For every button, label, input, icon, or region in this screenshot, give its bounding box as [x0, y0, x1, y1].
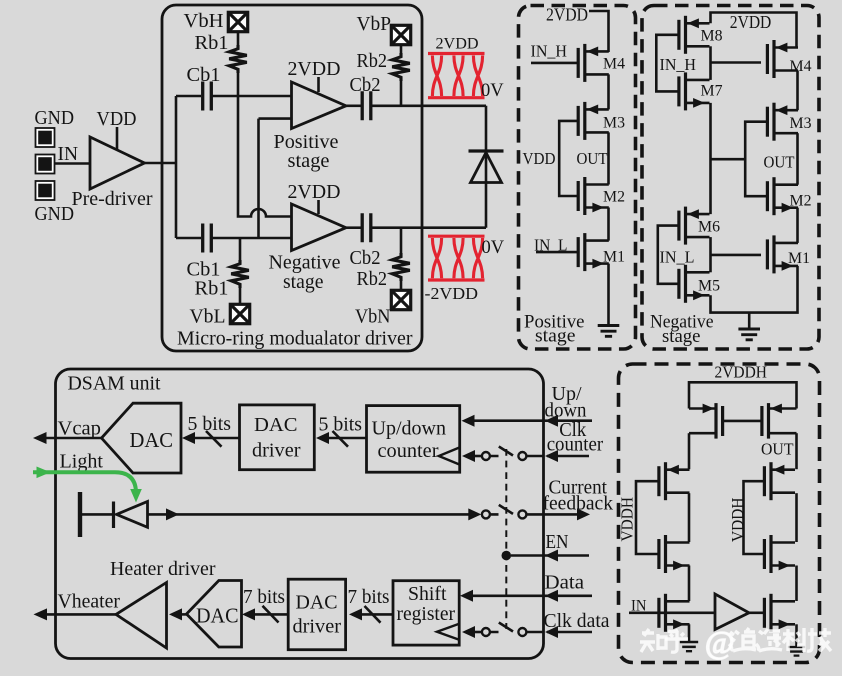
- svg-text:Pre-driver: Pre-driver: [72, 188, 153, 210]
- wire DAC driver2 to DAC arrow: [242, 606, 288, 623]
- DAC pentagon top: [102, 403, 182, 473]
- capacitor Cb1 top: [203, 82, 212, 111]
- svg-text:DAC: DAC: [130, 428, 174, 452]
- wire Cb1 to positive stage input: [211, 95, 292, 98]
- wire M6 drain to M5 source: [709, 237, 712, 272]
- box Micro-ring modulator driver: [162, 5, 422, 351]
- wire 2VDD stub positive: [317, 77, 320, 92]
- wire negative output to Cb2: [346, 226, 362, 229]
- wire EN input: [502, 550, 590, 562]
- svg-text:VDDH: VDDH: [618, 497, 637, 542]
- box Up/down counter: [367, 406, 460, 473]
- svg-text:Rb1: Rb1: [195, 278, 229, 300]
- wire M1 drain to ground: [607, 264, 610, 325]
- svg-text:M1: M1: [603, 249, 625, 266]
- wire low-right to output transistor: [795, 566, 798, 602]
- svg-text:Clk data: Clk data: [544, 610, 610, 632]
- svg-text:driver: driver: [293, 616, 342, 638]
- svg-text:EN: EN: [546, 531, 569, 553]
- wire shift register to DAC driver arrow: [349, 606, 393, 623]
- wire 2VDD rail to M4: [589, 11, 609, 52]
- wire M2 drain to M1 source: [607, 208, 610, 241]
- box DAC driver top: [240, 405, 315, 470]
- op-amp Negative stage: [292, 204, 347, 251]
- wire gate bracket M3-M2 (negative): [745, 122, 767, 197]
- svg-text:VbP: VbP: [357, 13, 392, 35]
- wire M8 drain to M7 source: [709, 46, 712, 80]
- dashed box 2VDDH driver: [619, 364, 820, 663]
- svg-text:2VDD: 2VDD: [288, 58, 341, 80]
- svg-text:VbL: VbL: [190, 306, 226, 328]
- wire DAC driver to DAC arrow: [182, 431, 240, 447]
- wire Rb1 down to negative stage upper input (with hop): [238, 73, 292, 217]
- wire VDD to pre-driver: [116, 127, 119, 150]
- dashed box Negative stage: [642, 6, 819, 350]
- wire cross-couple vertical: [257, 119, 260, 238]
- transistor M7: [679, 72, 710, 110]
- transistor M3: [578, 102, 609, 140]
- svg-text:2VDD: 2VDD: [288, 181, 341, 203]
- transistor M1: [578, 233, 609, 271]
- photodiode absorber bar: [78, 492, 82, 537]
- transistor M3 (negative): [767, 103, 798, 141]
- svg-text:VDD: VDD: [97, 108, 137, 130]
- svg-text:Vheater: Vheater: [58, 591, 121, 613]
- svg-text:OUT: OUT: [764, 153, 796, 172]
- wire 2VDD stub negative: [317, 200, 320, 214]
- clock input triangle (shift register): [437, 624, 459, 640]
- wire IN pad to pre-driver: [55, 162, 91, 165]
- wire buffer to output gate: [749, 611, 764, 614]
- capacitor Cb2 bottom: [362, 213, 371, 242]
- watermark 知乎 @逍遥科技: [640, 628, 831, 652]
- svg-text:counter: counter: [378, 440, 439, 462]
- wire Cb1 to negative stage lower input: [211, 237, 292, 240]
- wire Vcap output arrow: [33, 432, 102, 444]
- eye diagram top (2VDD/0V): [428, 54, 485, 98]
- wire Cb2 to box edge and out: [372, 105, 487, 108]
- svg-text:2VDD: 2VDD: [730, 12, 772, 32]
- wire IN input line: [629, 611, 715, 614]
- transistor M5: [679, 265, 710, 303]
- svg-text:M3: M3: [603, 115, 625, 132]
- pad IN: [36, 155, 55, 174]
- wire mid-right to low-right: [795, 493, 798, 542]
- resistor Rb1 top: [229, 45, 247, 73]
- svg-text:M5: M5: [698, 278, 720, 295]
- svg-text:VbN: VbN: [355, 306, 391, 328]
- wire IN_L node to M1 gate: [711, 254, 762, 257]
- op-amp buffer (2VDDH box): [715, 594, 749, 630]
- svg-text:M3: M3: [790, 115, 812, 132]
- switch current feedback: [468, 505, 590, 521]
- svg-text:stage: stage: [288, 150, 330, 172]
- wire Vheater output arrow: [34, 608, 117, 620]
- svg-text:Rb2: Rb2: [357, 50, 388, 72]
- wire bus to Cb1 bottom: [176, 237, 201, 240]
- svg-text:-2VDD: -2VDD: [425, 284, 479, 303]
- svg-text:M4: M4: [790, 58, 812, 75]
- transistor input NMOS: [659, 594, 690, 632]
- svg-text:IN: IN: [58, 143, 79, 165]
- wire photodiode output with arrow: [148, 508, 470, 520]
- pad GND bottom: [36, 181, 55, 200]
- wire Data input arrow: [460, 590, 592, 602]
- transistor M2: [578, 177, 609, 215]
- resistor Rb1 bottom: [231, 260, 249, 288]
- wire mid-left to low-left: [688, 493, 691, 542]
- svg-text:Cb2: Cb2: [350, 74, 381, 96]
- wire junction to Rb1 bottom: [239, 238, 242, 260]
- svg-text:IN_H: IN_H: [531, 42, 568, 61]
- wire counter to DAC driver arrow: [316, 431, 367, 447]
- svg-text:OUT: OUT: [577, 149, 609, 168]
- box DAC driver bottom: [288, 579, 345, 650]
- transistor M4: [578, 44, 609, 82]
- svg-text:DAC: DAC: [296, 592, 338, 614]
- svg-text:7 bits: 7 bits: [243, 586, 285, 608]
- resistor Rb2 bottom: [392, 253, 410, 281]
- transistor P-right (top pair): [762, 403, 797, 439]
- svg-text:M2: M2: [603, 189, 625, 206]
- ground (negative stage): [738, 313, 760, 340]
- svg-text:Cb2: Cb2: [350, 247, 381, 269]
- light green arrow: [33, 467, 142, 503]
- transistor cascode low-left: [659, 535, 690, 573]
- svg-text:OUT: OUT: [761, 440, 794, 459]
- wire IN_H node to M4 gate: [711, 61, 762, 64]
- svg-text:counter: counter: [547, 434, 604, 456]
- wire positive output to Cb2: [346, 105, 362, 108]
- op-amp Positive stage: [292, 82, 347, 129]
- svg-text:2VDDH: 2VDDH: [715, 363, 768, 382]
- bias connector VbN: [391, 290, 410, 309]
- wire IN_H gate lead: [531, 62, 578, 65]
- wire 2VDDH rail: [689, 382, 797, 408]
- box Shift register: [393, 581, 459, 645]
- svg-text:Light: Light: [60, 451, 104, 473]
- wire input bus vertical: [175, 96, 178, 238]
- wire output line to Rb2 bottom: [400, 228, 403, 253]
- svg-text:stage: stage: [535, 326, 576, 347]
- wire IN_L gate lead: [536, 251, 578, 254]
- svg-text:M8: M8: [701, 28, 723, 45]
- wire Rb2 to VbN: [400, 281, 403, 291]
- transistor cascode low-right: [764, 535, 795, 573]
- wire VDD bracket M3-M2 gates: [559, 121, 578, 196]
- bias connector VbP: [391, 25, 410, 44]
- capacitor Cb2 top: [362, 91, 371, 120]
- svg-text:0V: 0V: [482, 238, 505, 258]
- wire VDDH bracket left: [636, 481, 659, 554]
- wire input transistor to ground: [688, 624, 691, 641]
- ground (positive stage): [598, 326, 620, 337]
- svg-text:DAC: DAC: [196, 604, 239, 628]
- wire bottom rail M5-M1: [711, 266, 798, 313]
- wire VbP to Rb2: [400, 44, 403, 53]
- svg-text:DSAM unit: DSAM unit: [68, 373, 161, 395]
- wire left stack down: [688, 433, 691, 469]
- svg-text:stage: stage: [662, 326, 701, 347]
- photodiode: [114, 502, 148, 529]
- svg-text:VDD: VDD: [523, 149, 556, 168]
- svg-text:Rb2: Rb2: [357, 268, 388, 290]
- wire pre-driver output to bus: [145, 162, 177, 165]
- svg-text:Data: Data: [545, 572, 585, 594]
- wire Clk counter input with switch: [462, 447, 589, 463]
- wire Rb2 to output line: [400, 81, 403, 106]
- ground (left, 2VDDH box): [680, 642, 698, 651]
- svg-text:M6: M6: [698, 219, 720, 236]
- wire Cb2 bottom to box edge and out: [372, 226, 487, 229]
- op-amp heater driver: [116, 583, 167, 649]
- wire positive stage lower input: [259, 117, 292, 120]
- svg-text:0V: 0V: [481, 81, 504, 101]
- svg-text:Micro-ring modualator driver: Micro-ring modualator driver: [177, 328, 413, 350]
- svg-text:@: @: [705, 624, 734, 660]
- svg-text:stage: stage: [283, 271, 324, 293]
- box DSAM unit: [56, 369, 544, 659]
- svg-text:IN_H: IN_H: [660, 55, 697, 74]
- svg-text:Shift: Shift: [408, 583, 447, 605]
- svg-text:5 bits: 5 bits: [319, 414, 363, 436]
- wire M2 drain to M1 source: [796, 208, 799, 243]
- bias connector VbH: [228, 12, 247, 31]
- wire DAC to heater driver arrow: [169, 608, 187, 620]
- wire VbH to Rb1: [237, 31, 240, 45]
- svg-text:M1: M1: [788, 250, 810, 267]
- svg-text:Vcap: Vcap: [58, 418, 102, 440]
- wire modulator branch vertical: [485, 106, 488, 228]
- pad GND top: [36, 128, 55, 147]
- wire absorber to diode: [80, 513, 112, 516]
- transistor P-left (top pair): [689, 403, 723, 439]
- transistor M8: [679, 16, 710, 54]
- wire Up/down input arrow: [462, 415, 593, 427]
- svg-text:IN_L: IN_L: [534, 236, 568, 255]
- dashed control line EN: [505, 449, 507, 629]
- wire bus to Cb1 top: [176, 95, 201, 98]
- wire IN_H bracket M8-M7 gates: [656, 35, 679, 92]
- resistor Rb2 top: [392, 53, 410, 81]
- svg-text:GND: GND: [35, 203, 75, 225]
- wire VDDH bracket right: [744, 481, 765, 554]
- svg-text:driver: driver: [252, 440, 301, 462]
- transistor M1 (negative): [767, 235, 798, 273]
- wire output transistor to ground: [795, 624, 798, 646]
- transistor M2 (negative): [767, 177, 798, 215]
- wire M3 drain to M2 source OUT node: [796, 133, 799, 185]
- clock input triangle (counter): [439, 447, 460, 464]
- DAC pentagon bottom: [187, 581, 242, 648]
- svg-text:Up/down: Up/down: [372, 418, 447, 440]
- wire M7 drain to M6 source: [709, 103, 712, 214]
- wire Clk data input with switch: [462, 623, 592, 639]
- op-amp pre-driver: [90, 137, 145, 189]
- svg-text:M2: M2: [790, 193, 812, 210]
- svg-text:M4: M4: [603, 56, 625, 73]
- svg-text:M7: M7: [701, 82, 723, 99]
- svg-text:IN_L: IN_L: [660, 248, 695, 267]
- dashed box Positive stage: [519, 6, 636, 350]
- transistor output NMOS: [764, 594, 795, 632]
- transistor M4 (negative): [767, 40, 798, 78]
- svg-text:5 bits: 5 bits: [188, 413, 232, 435]
- transistor cascode mid-left: [659, 462, 690, 500]
- svg-text:2VDD: 2VDD: [436, 36, 479, 53]
- wire IN_L bracket M6-M5 gates: [658, 226, 679, 284]
- ground (right, 2VDDH box): [788, 647, 805, 656]
- wire gate connector top pair: [724, 420, 761, 423]
- wire middle tap to gate bracket: [711, 158, 746, 161]
- svg-text:7 bits: 7 bits: [348, 586, 390, 608]
- wire right stack OUT node: [795, 433, 798, 469]
- wire M3 drain to M2 source OUT node: [607, 132, 610, 184]
- eye diagram bottom (0V/-2VDD): [428, 236, 485, 280]
- capacitor Cb1 bottom: [203, 224, 212, 253]
- transistor cascode mid-right: [764, 462, 795, 500]
- wire low-left to input transistor: [688, 566, 691, 602]
- diode ring modulator: [469, 151, 504, 183]
- svg-text:2VDD: 2VDD: [546, 5, 588, 25]
- svg-text:register: register: [397, 603, 456, 625]
- wire 2VDD rail: [711, 13, 797, 48]
- svg-text:DAC: DAC: [254, 414, 298, 436]
- wire M4 drain to M3 source: [607, 74, 610, 109]
- wire M4 drain to M3 source: [796, 71, 799, 111]
- transistor M6: [679, 207, 710, 245]
- svg-text:feedback: feedback: [543, 493, 614, 515]
- svg-text:VDDH: VDDH: [728, 497, 747, 542]
- svg-text:GND: GND: [35, 107, 75, 129]
- wire Rb1 to VbL: [239, 288, 242, 305]
- svg-text:Rb1: Rb1: [195, 32, 229, 54]
- svg-text:Cb1: Cb1: [187, 64, 221, 86]
- svg-text:VbH: VbH: [184, 10, 224, 32]
- svg-text:Heater driver: Heater driver: [110, 558, 216, 580]
- bias connector VbL: [230, 304, 249, 323]
